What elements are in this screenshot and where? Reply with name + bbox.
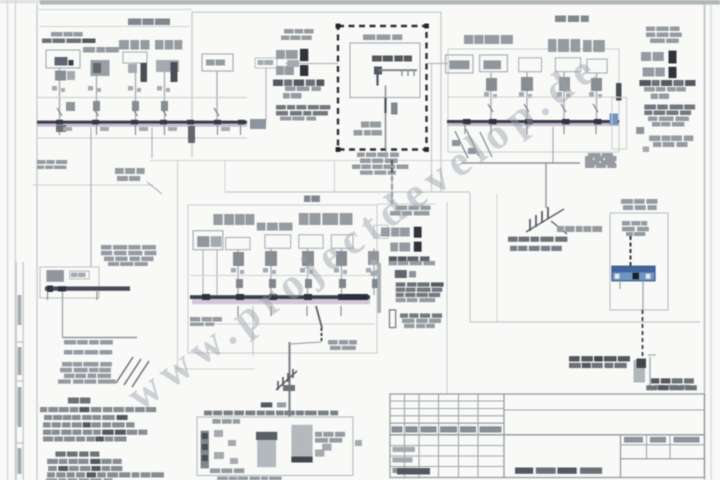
label cable at x328 xyxy=(328,340,338,345)
board SCH1 label input line1 xyxy=(51,32,62,37)
legend line 4 xyxy=(46,479,57,480)
board SCH2 title xyxy=(555,16,566,23)
board SCH4 outline xyxy=(40,267,99,298)
SCH3 device box col3 xyxy=(299,235,323,249)
annotation SCH2 band row xyxy=(639,80,651,86)
stand label text xyxy=(651,378,659,383)
aux box text xyxy=(258,60,264,65)
section stub vertical x334 xyxy=(334,160,336,192)
legend header xyxy=(55,452,65,457)
SCH1 pole tick marks above bus xyxy=(57,108,62,116)
GOST margin rotated text 1 xyxy=(18,347,22,375)
label gruppovaya set xyxy=(115,168,124,174)
SCH3 breaker cluster col5 xyxy=(368,251,379,265)
notes line 4 xyxy=(43,430,51,435)
legend line 1 xyxy=(47,459,58,464)
annotation SCH2 row1 text xyxy=(641,52,651,61)
below-bus group label SCH1 xyxy=(37,160,46,164)
board SCH2 outline xyxy=(448,49,619,152)
SCH3 breaker cluster col3 xyxy=(302,251,314,266)
SCH2 input box 1 xyxy=(446,55,474,73)
pole L wire xyxy=(649,357,651,388)
leader diagonal gruppovaya xyxy=(147,182,162,194)
SCH2 right side box xyxy=(612,97,627,149)
lighting feeder horizontal y163 xyxy=(462,162,580,164)
contact marks col4 y100 xyxy=(161,101,168,111)
SCH3 wire col4 xyxy=(341,248,343,295)
GOST margin rotated text 0 xyxy=(18,295,22,325)
SCH3 bus dark xyxy=(190,295,370,299)
lighting drop x546 xyxy=(545,163,547,208)
title block right col Stadia xyxy=(646,435,648,459)
SCH2 input box 2 xyxy=(480,55,508,72)
section line vertical x192 xyxy=(191,12,193,157)
board SCH1 label input line2 xyxy=(42,39,52,44)
board SCH4 label xyxy=(101,245,112,250)
meter box text xyxy=(206,60,215,66)
title block signature row 1 xyxy=(390,445,504,447)
SCH2 wire col2 xyxy=(526,72,528,120)
board SCH1 label col3 xyxy=(119,40,129,50)
SCH2 bus junctions xyxy=(463,119,471,124)
SCH2 device box 4 xyxy=(555,58,580,72)
bus N1 SCH1 dark xyxy=(37,121,247,124)
annotation SCH3 rows y260-265 xyxy=(389,261,397,265)
annotation SCH3 row2 text xyxy=(390,243,398,252)
SCH3 label row1 xyxy=(213,214,222,225)
title block outer frame xyxy=(390,394,705,478)
SCH4 outgoing horizontal line xyxy=(63,337,138,339)
watermark www.projectdevelop.de xyxy=(118,43,609,420)
scan fold line left 2 xyxy=(14,0,16,480)
SCH2 below-bus ticks xyxy=(464,124,466,135)
contact marks col2 y100 xyxy=(93,101,100,111)
VRU internal busbar xyxy=(378,69,417,71)
annotation SCH1 row1 text xyxy=(276,50,285,59)
annotation SCH3 dark square 1 xyxy=(414,227,422,238)
title block signature row 2 xyxy=(390,455,504,457)
VRU corner marks xyxy=(336,24,341,29)
lighting text line1 xyxy=(508,237,518,242)
band line lower SCH1 xyxy=(37,137,247,139)
SCH2 blue input mark xyxy=(610,114,619,126)
legend line 2 xyxy=(48,466,57,471)
input switch blob SCH1 xyxy=(55,57,68,66)
SCH2 input box 1 text xyxy=(449,60,469,69)
drawing frame left border xyxy=(36,4,38,480)
section line top horizontal VRU xyxy=(192,11,441,13)
title block column v2 xyxy=(418,394,420,478)
pole symbol diagonal lead xyxy=(551,221,567,234)
SCHU bottom row text xyxy=(210,468,220,473)
GOST margin cell divider 1 xyxy=(16,341,24,343)
notes line 2 xyxy=(44,415,52,420)
wire VRU left to SCH1 area xyxy=(285,63,338,65)
board SCH2 label row2 xyxy=(548,39,556,52)
annotation SCH1 cable block xyxy=(276,105,286,110)
SCH2 column side marks xyxy=(484,92,489,97)
VRU below-box text xyxy=(357,153,365,158)
VRU label xyxy=(363,35,375,41)
SCH1 column side marks xyxy=(52,86,57,91)
SCH3 wire col1 xyxy=(237,250,239,295)
GOST margin rotated text 2 xyxy=(18,387,22,427)
title block row above header xyxy=(390,422,504,424)
title block stadia header text xyxy=(624,437,643,443)
board SCH3 top line extension xyxy=(377,203,436,205)
SCH2 below-bus label xyxy=(588,153,601,158)
notes header Primechaniya xyxy=(68,398,79,404)
SCH2 wire col3 xyxy=(563,72,565,120)
SCH3 band line xyxy=(190,275,375,277)
GOST margin cell divider 3 xyxy=(16,442,24,444)
notes line 1 xyxy=(40,407,47,412)
contact marks col1 y100 xyxy=(66,102,75,111)
cable riser dashed xyxy=(642,310,644,364)
SCHU right outside marks xyxy=(355,440,362,446)
notes line 5 xyxy=(43,437,53,442)
aux box SCH1 xyxy=(255,58,277,68)
below-bus ticks SCH1 xyxy=(59,124,61,135)
annotation SCH1 row2 text xyxy=(276,66,284,75)
wire gray x289 to SCHU xyxy=(288,342,290,417)
title block column v1 xyxy=(404,394,406,478)
annotation SCH2 text block top xyxy=(646,27,655,32)
section line vertical x470 lighting xyxy=(469,193,471,322)
board SCH1 title xyxy=(128,19,141,26)
VRU switch symbol xyxy=(374,67,382,75)
contact marks col3 y100 xyxy=(132,101,139,111)
cabinet inner text xyxy=(622,221,630,226)
section line horizontal y369 xyxy=(176,368,255,370)
title block column v4 xyxy=(458,394,460,478)
VRU busbar taps xyxy=(401,70,403,76)
cabinet label above xyxy=(621,199,633,204)
section line vertical x177 xyxy=(177,160,179,369)
title block row y410 right xyxy=(504,409,705,411)
SCH3 label row2 xyxy=(299,213,309,225)
title block column v6 xyxy=(503,394,505,478)
blue switch white cell left xyxy=(615,274,620,279)
title block header cells text xyxy=(392,426,403,432)
below-bus cluster x191 feeder breaker xyxy=(188,126,195,143)
bus N1 SCH1 purple shadow xyxy=(37,124,247,127)
wire dark dashed x321 xyxy=(321,328,323,342)
section line horizontal y160 xyxy=(150,160,460,162)
title block right row under header xyxy=(621,444,705,446)
bus junction blobs SCH1 xyxy=(56,120,63,125)
SCH2 bus purple shadow xyxy=(447,123,619,126)
VRU wire dark segment xyxy=(384,98,386,113)
wire bend to x289 xyxy=(290,342,322,344)
wire VRU to SCH2 horizontal xyxy=(427,63,448,65)
annotation SCH1 text block top xyxy=(284,29,294,34)
board SCH1 label col2 xyxy=(83,47,95,53)
section stub vertical x225 xyxy=(224,160,226,192)
SCHU long title text xyxy=(204,411,212,416)
blue switch box top band xyxy=(612,266,655,272)
breaker QF4 cluster xyxy=(156,60,179,72)
scan fold line left 1 xyxy=(7,0,9,480)
board SCH1 label col4 xyxy=(155,40,164,50)
legend line 3 xyxy=(47,472,55,477)
SCH4 bus junctions xyxy=(47,286,53,293)
cabinet below wire right xyxy=(642,281,644,310)
SCH4 drop wire x62 xyxy=(62,292,64,338)
VRU feeder light to SCH3 xyxy=(391,175,393,205)
board SCH1 title underline xyxy=(40,26,190,28)
SCHU gray column 2 xyxy=(291,425,312,463)
GOST margin column line inner xyxy=(15,262,17,480)
annotation SCH1 small text xyxy=(283,93,290,99)
SCH2 band line upper xyxy=(448,96,619,98)
pole dark cluster xyxy=(637,359,647,369)
annotation SCH3 cable spec block xyxy=(396,282,406,286)
VRU cabinet dashed box xyxy=(338,26,427,150)
SCH2 breaker cluster col3 xyxy=(559,77,570,91)
SCH2 input box 2 text xyxy=(483,60,501,69)
title block signature texts xyxy=(393,447,416,452)
SCH3 wire col2 xyxy=(270,248,272,295)
drawing frame right border xyxy=(704,4,706,480)
blue switch dark center xyxy=(633,273,640,280)
SCH2 wire col1 xyxy=(490,73,492,120)
annotation SCH3 cable block 2 xyxy=(400,313,408,317)
title block mini row 2 xyxy=(390,408,504,410)
VRU bottom label xyxy=(361,122,369,128)
section line horizontal y322 lighting xyxy=(470,321,700,323)
blue switch box body xyxy=(612,266,655,281)
blue switch white cell right xyxy=(646,274,651,279)
cabinet below wire left xyxy=(619,281,621,289)
lighting text line2 xyxy=(510,246,517,251)
tick row right of poles xyxy=(557,226,564,232)
annotation SCH2 small marks 2 xyxy=(643,147,650,153)
SCH4 below-bus ticks xyxy=(47,292,49,301)
feeder wire x91 to SCH4 xyxy=(90,128,92,268)
wire col3 SCH1 xyxy=(135,63,137,121)
annotation SCH3 dark square 2 xyxy=(414,242,422,252)
SCHU right text cluster xyxy=(315,432,322,437)
annotation SCH2 marks xyxy=(636,127,644,134)
SCH2 breaker cluster col1 xyxy=(486,78,497,91)
GOST margin column line outer xyxy=(22,262,24,480)
SCH3 column side marks xyxy=(231,268,236,273)
board SCH3 title xyxy=(304,196,310,203)
section line vertical x441 xyxy=(440,12,442,192)
breaker QF2 cluster xyxy=(91,60,110,76)
GOST margin rotated text 3 xyxy=(18,448,22,474)
scan line right outer xyxy=(710,4,712,480)
title block mini row 1 xyxy=(390,400,504,402)
SCH2 device box 5 xyxy=(587,59,607,73)
SCH2 wire col4 xyxy=(596,73,598,120)
SCH3 breaker cluster col4 xyxy=(336,251,347,266)
title block doc number above xyxy=(646,385,657,390)
SCHU outline box xyxy=(197,417,353,476)
SCH2 bus dark xyxy=(447,120,619,123)
title block column right section xyxy=(620,435,622,478)
SCH3 wire col5 xyxy=(373,248,375,295)
SCH3 label row1b xyxy=(257,223,266,231)
feeding network text block xyxy=(62,362,72,367)
wire col2 SCH1 xyxy=(96,60,98,121)
SCH2 right dark bar xyxy=(616,83,622,101)
SCH3 bus junctions xyxy=(202,294,210,300)
SCH2 device box 3 xyxy=(519,58,542,72)
SCHU gray column 1 xyxy=(257,440,276,467)
SCH3 input box 1 cells xyxy=(197,236,209,247)
SCH3 input box 1 xyxy=(193,231,223,250)
annotation SCH1 dark square 1 xyxy=(300,49,308,61)
section line horizontal y185 left xyxy=(33,184,153,186)
notes line 3 xyxy=(43,422,51,427)
title block drawing title text xyxy=(515,468,533,474)
SCHU contactor dark rect xyxy=(256,432,277,440)
SCH3 device box col4 xyxy=(331,235,353,249)
section line vertical x497 lighting inner xyxy=(496,194,498,322)
SCH2 pole tick marks above bus xyxy=(488,104,493,112)
SCH3 wire col3 xyxy=(307,248,309,295)
blue switch box border xyxy=(612,266,655,281)
annotation SCH3 left light boxes xyxy=(374,225,388,238)
VRU feeder below x386 xyxy=(385,150,387,161)
breaker QF1 cluster xyxy=(55,71,66,81)
wire col4 SCH1 xyxy=(164,60,166,121)
SCHU gray column 2 dark band xyxy=(291,457,312,463)
title block header row line xyxy=(390,434,705,436)
wire diagonal from SCH3 bus xyxy=(316,306,322,328)
annotation SCH2 cable block xyxy=(644,105,656,110)
annotation SCH3 top rows xyxy=(396,206,407,211)
SCHU left terminal stack xyxy=(201,431,209,469)
SCH4 outgoing line label xyxy=(64,340,76,345)
VRU feeder dark segment x392 xyxy=(391,160,393,203)
scanner top gray band xyxy=(40,0,720,5)
SCHU inner top text xyxy=(212,419,220,424)
breaker QF3 box xyxy=(123,52,147,63)
annotation SCH2 small text xyxy=(651,94,658,100)
title block right row y458 xyxy=(621,458,705,460)
title block column v3 xyxy=(438,394,440,478)
SCH3 contact marks row xyxy=(236,279,243,288)
overhead line poles symbol xyxy=(526,209,564,232)
pole symbol gray bar xyxy=(634,360,646,383)
annotation SCH2 dark square 2 xyxy=(669,67,677,78)
annotation SCH3 branch box xyxy=(390,310,396,328)
SCH3 right edge gray bar xyxy=(378,263,382,313)
SCH3 below-bus ticks xyxy=(237,306,239,316)
band line upper SCH1 xyxy=(37,97,247,99)
SCHU below-box text xyxy=(217,477,228,480)
SCH4 inner cell 2 xyxy=(70,271,90,279)
SCH4 bus darker blob xyxy=(58,286,66,291)
SCH3 breaker cluster col2 xyxy=(265,251,277,266)
SCHU small device marks xyxy=(214,430,223,437)
VRU outgoing wire xyxy=(385,86,387,150)
SCH3 bus purple shadow xyxy=(192,299,370,304)
board SCH2 label row3 xyxy=(583,40,592,52)
breaker QF3 bar xyxy=(141,63,148,82)
SCH2 breaker cluster col2 xyxy=(521,77,533,91)
annotation SCH1 dark square 2 xyxy=(300,65,308,76)
title block dark name blob xyxy=(397,468,430,475)
annotation SCH2 uchet box xyxy=(649,136,660,142)
wire meter down xyxy=(216,71,218,121)
VRU PEN marks xyxy=(391,103,398,115)
below-bus small labels SCH1 xyxy=(63,127,72,131)
VRU inner label dark xyxy=(372,56,382,62)
SCH4 cable hatch marks xyxy=(116,357,133,383)
meter box SCH1 xyxy=(202,54,233,71)
cabinet drop wire dark xyxy=(630,236,632,267)
overhead line symbol near SCHU xyxy=(276,371,297,390)
SCH2 breaker cluster col4 xyxy=(591,78,602,91)
below-bus cluster col1 xyxy=(56,125,66,132)
annotation SCH3 pair blobs xyxy=(395,270,407,278)
annotation SCH2 dark square 1 xyxy=(669,51,677,64)
board SCH3 outline xyxy=(188,205,377,353)
section line vertical x447 xyxy=(446,202,448,394)
annotation SCH2 row2 text xyxy=(643,68,655,77)
wire aux down xyxy=(265,68,267,121)
SCH3 right edge tick marks xyxy=(371,260,378,265)
pole label text lines xyxy=(569,356,580,361)
below-bus drop x253 xyxy=(252,306,254,356)
SCH3 bus dark blob right xyxy=(345,294,367,300)
annotation SCH3 row1 text xyxy=(381,228,390,237)
cabinet outline box xyxy=(610,213,668,310)
SCH2 luminaire symbols below bus xyxy=(455,131,468,158)
annotation SCH3 band row xyxy=(389,256,397,261)
SCH2 drop to lighting line xyxy=(552,127,554,163)
annotation SCH1 band row xyxy=(273,80,283,87)
SCH3 below-bus label xyxy=(190,317,200,322)
wire drop x431 to section line xyxy=(431,64,433,193)
drawing frame top border xyxy=(37,9,192,11)
bus end marks x250-266 xyxy=(250,119,266,129)
SCH3 input box 2 xyxy=(226,238,250,250)
SCH4 bus dark xyxy=(45,286,130,290)
lighting feeder label xyxy=(585,156,593,161)
title block signature row 3 xyxy=(390,466,504,468)
SCH3 breaker cluster col1 xyxy=(233,252,244,266)
title block column v5 xyxy=(477,394,479,478)
SCH4 inner cell 1 xyxy=(46,270,64,282)
feeder stub x152 xyxy=(151,128,153,159)
VRU inner panel box xyxy=(350,43,420,98)
board SCH2 label row1 xyxy=(464,35,473,44)
SCH3 lower band line xyxy=(190,323,375,325)
SCHU right marks xyxy=(322,444,331,451)
input device box SCH1 xyxy=(46,50,80,68)
SCHU label xyxy=(261,402,273,407)
section line horizontal y192 xyxy=(225,191,470,193)
wire col1 SCH1 xyxy=(59,68,61,121)
SCH3 device box col2 xyxy=(265,235,291,249)
SCH3 input wires xyxy=(202,250,204,295)
tick marks on VRU left wire xyxy=(287,60,299,67)
title block right col List xyxy=(669,435,671,459)
title block mini row 3 xyxy=(390,415,504,417)
GOST margin cell divider 2 xyxy=(16,380,24,382)
